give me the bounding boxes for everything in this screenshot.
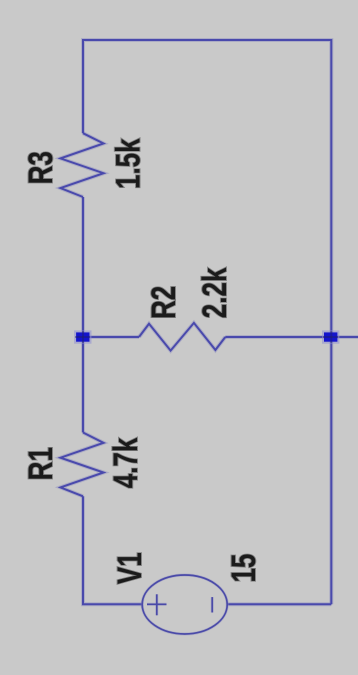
svg-text:4.7k: 4.7k [106,437,145,488]
svg-text:R2: R2 [143,286,182,319]
svg-text:R3: R3 [20,151,59,184]
svg-text:15: 15 [224,554,263,583]
svg-text:R1: R1 [21,447,60,480]
svg-text:1.5k: 1.5k [108,138,147,189]
svg-text:2.2k: 2.2k [195,267,234,318]
svg-text:V1: V1 [110,552,149,584]
